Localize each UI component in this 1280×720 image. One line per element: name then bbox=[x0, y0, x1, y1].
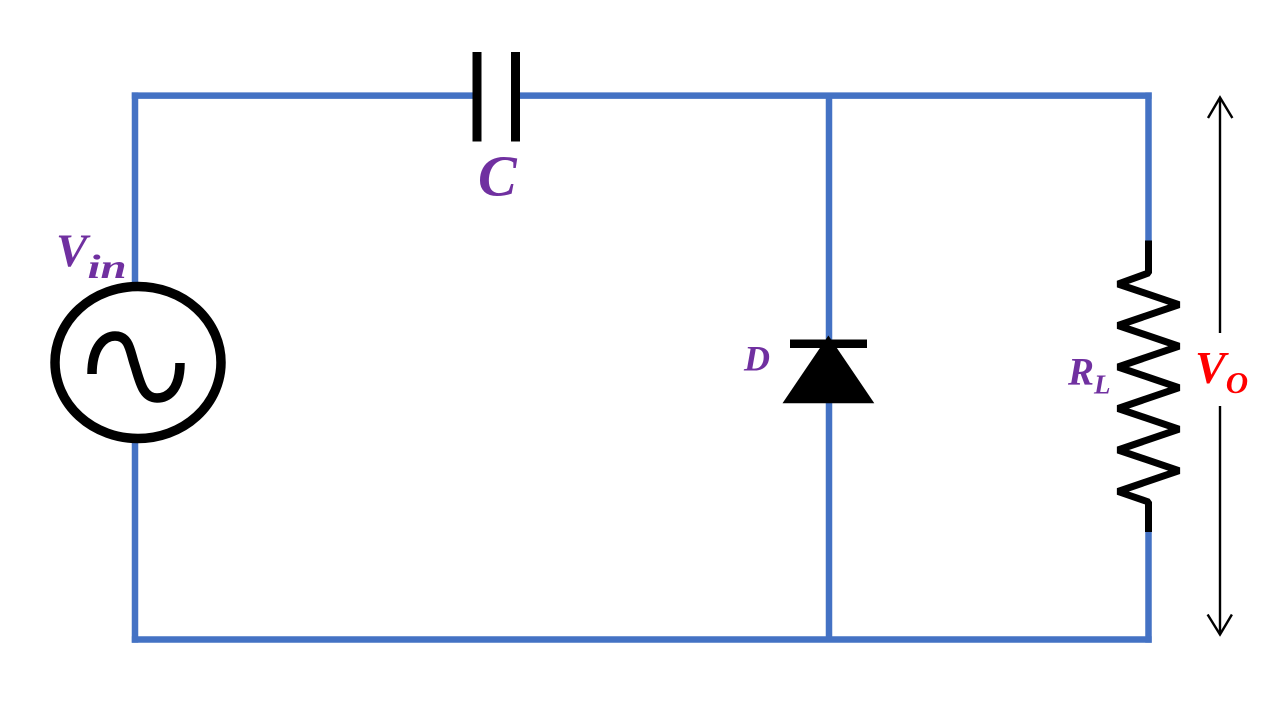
wire: top rail right segment (capacitor to right rail) bbox=[520, 92, 1152, 99]
svg-text:C: C bbox=[478, 144, 518, 209]
wire: top rail left segment (source to capacitor) bbox=[132, 92, 473, 99]
Vo measurement arrow: upper line segment bbox=[1219, 99, 1221, 333]
wire: left rail upper segment (top rail to Vin source) bbox=[132, 92, 139, 284]
capacitor C: right plate bbox=[511, 52, 520, 142]
AC source U1: sine wave symbol bbox=[92, 336, 180, 398]
wire: right rail upper segment (top rail to resistor) bbox=[1145, 92, 1152, 243]
capacitor C: left plate bbox=[473, 52, 482, 142]
Vo measurement arrow: lower line segment bbox=[1219, 406, 1221, 632]
wire: middle branch (diode branch, node junctions at top and bottom rails) bbox=[826, 96, 833, 640]
resistor RL: zigzag body with leads bbox=[1118, 241, 1179, 533]
AC source U1 (Vin): circle body bbox=[55, 287, 221, 439]
wire: bottom rail bbox=[132, 636, 1152, 643]
svg-text:D: D bbox=[743, 339, 770, 379]
diode D: anode triangle (pointing up) bbox=[783, 336, 875, 404]
svg-text:in: in bbox=[88, 247, 127, 285]
diode D: cathode bar bbox=[790, 340, 867, 349]
svg-text:VO: VO bbox=[1195, 342, 1248, 400]
wire: right rail lower segment (resistor to bottom rail) bbox=[1145, 530, 1152, 643]
svg-text:V: V bbox=[56, 225, 91, 277]
svg-text:RL: RL bbox=[1067, 351, 1111, 400]
Vo measurement arrow: bottom arrowhead chevron bbox=[1208, 615, 1232, 635]
wire: left rail lower segment (Vin source to bottom rail) bbox=[132, 441, 139, 643]
Vo measurement arrow: top arrowhead chevron bbox=[1208, 98, 1232, 119]
